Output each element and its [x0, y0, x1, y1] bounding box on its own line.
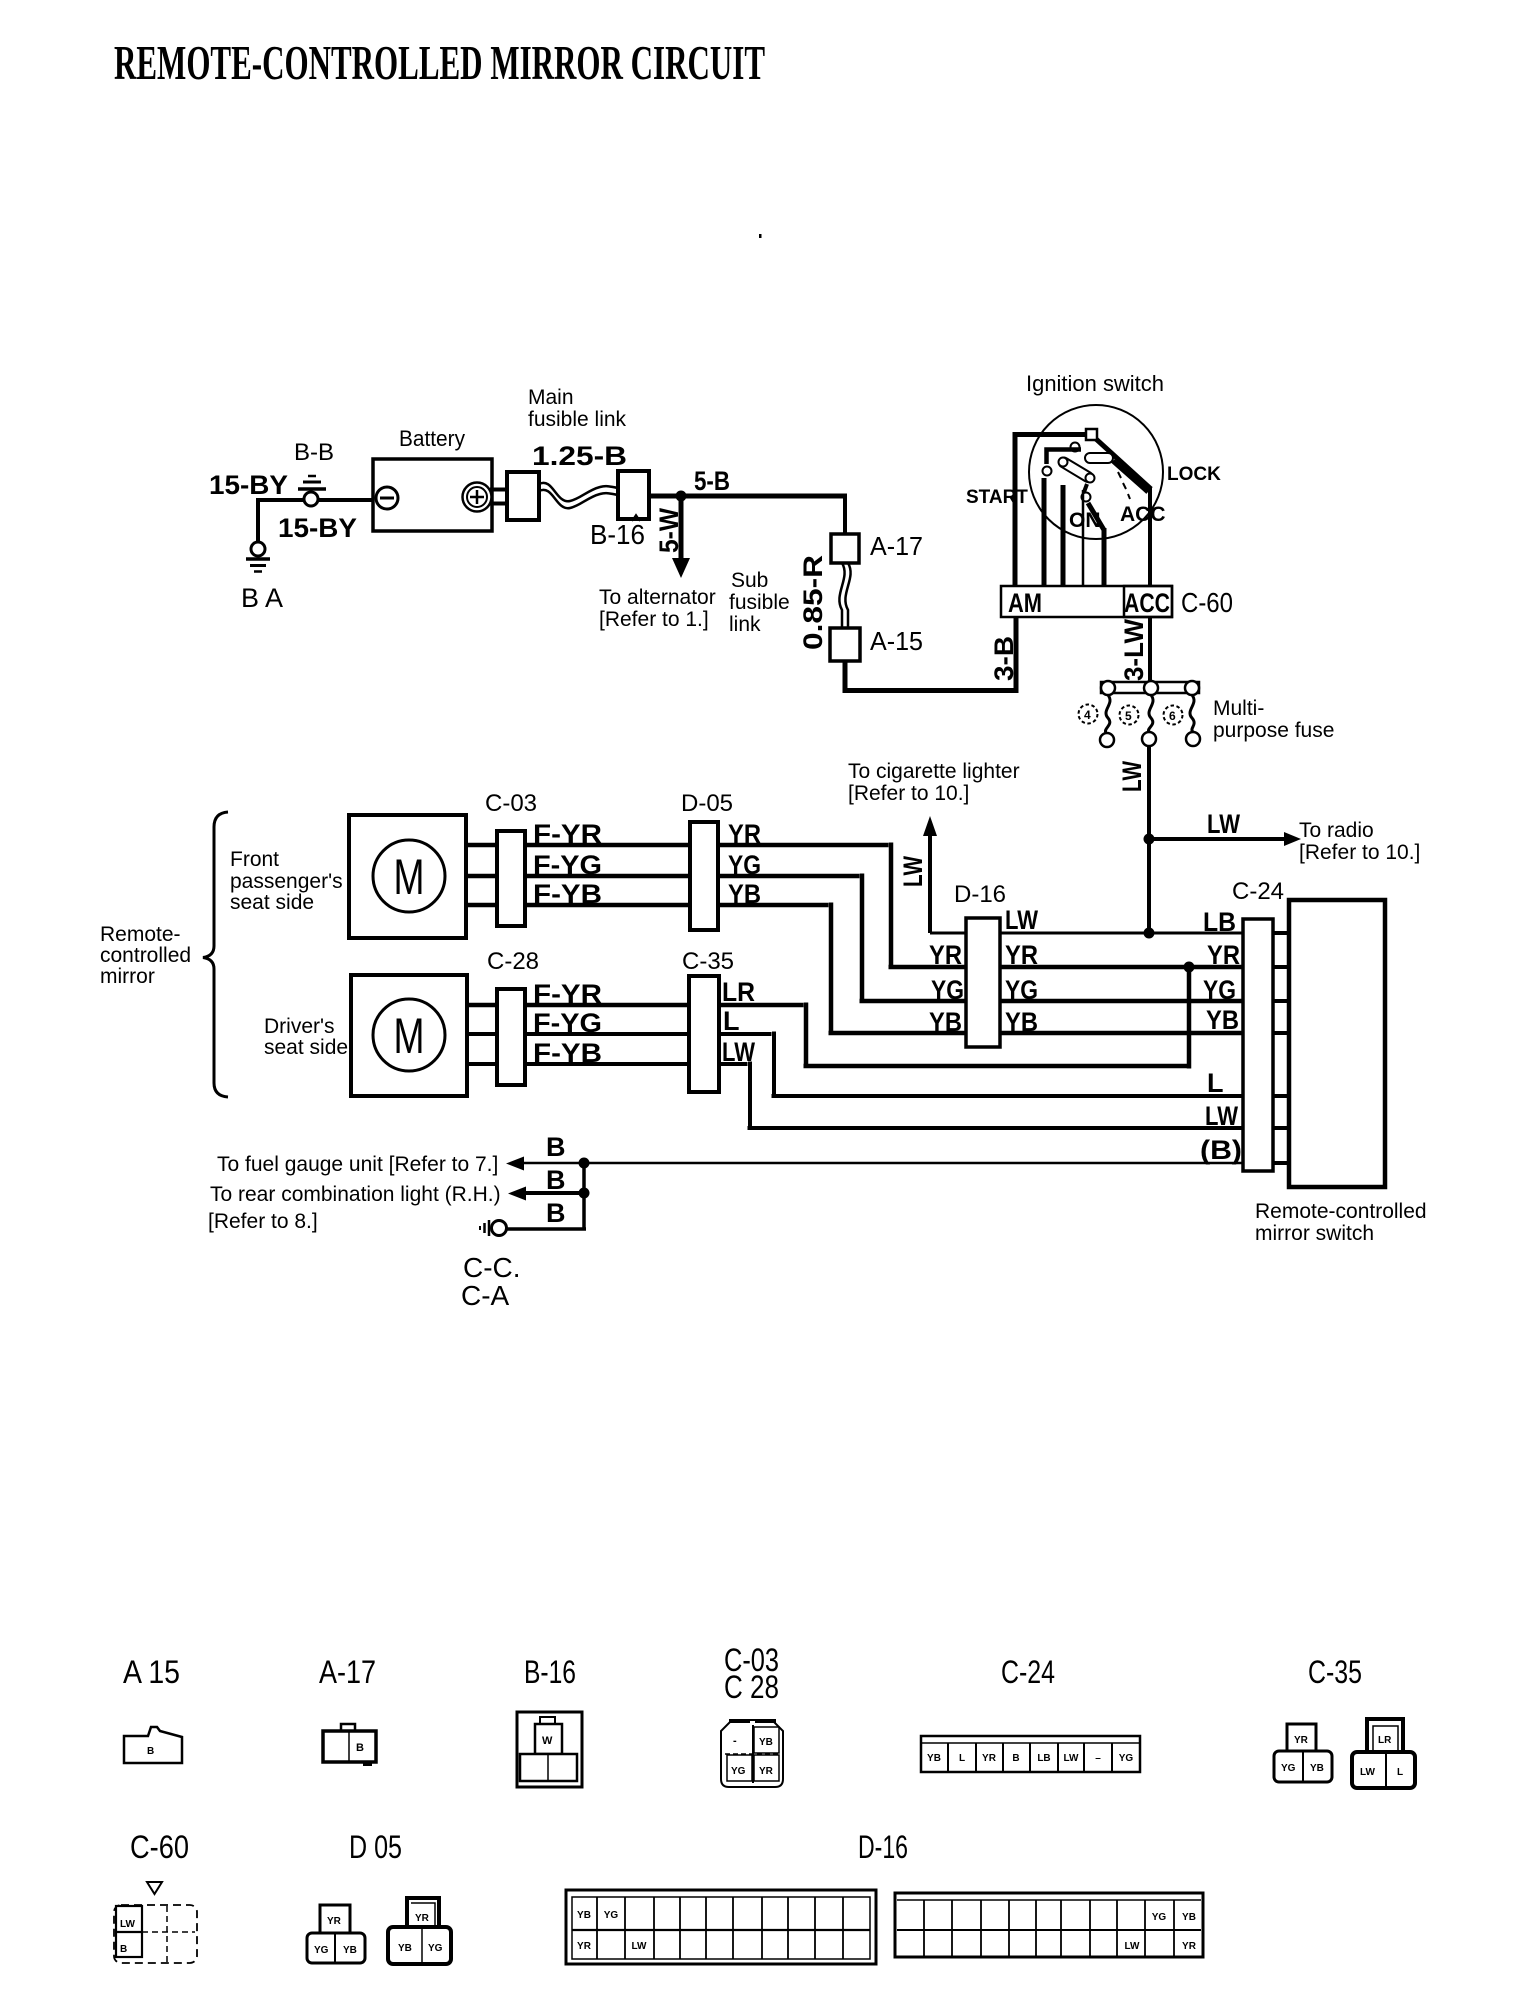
- wire (B) row: [522, 1162, 1243, 1165]
- svg-text:Remote-controlled: Remote-controlled: [1255, 1200, 1427, 1223]
- svg-text:F-YB: F-YB: [533, 1038, 602, 1068]
- svg-text:YG: YG: [728, 850, 761, 880]
- svg-text:LW: LW: [1064, 1753, 1080, 1764]
- svg-text:mirror: mirror: [100, 965, 155, 988]
- svg-text:YB: YB: [398, 1943, 412, 1954]
- svg-text:1.25-B: 1.25-B: [532, 441, 627, 471]
- svg-text:LW: LW: [1117, 761, 1147, 792]
- wire 5-B: [649, 494, 847, 499]
- svg-text:YR: YR: [415, 1913, 430, 1924]
- svg-text:YB: YB: [1182, 1912, 1196, 1923]
- connector C-35: [689, 976, 719, 1092]
- svg-text:YR: YR: [1182, 1941, 1197, 1952]
- svg-text:LB: LB: [1203, 907, 1236, 937]
- wire LR row to YR junction: [467, 967, 1189, 1069]
- svg-text:C-03: C-03: [485, 790, 537, 817]
- svg-text:[Refer to 1.]: [Refer to 1.]: [599, 608, 709, 631]
- svg-text:C-C.: C-C.: [463, 1252, 521, 1283]
- pin icon B-16: [517, 1712, 582, 1787]
- wire YB row: [466, 903, 1243, 1034]
- wire to alternator arrow: [679, 496, 684, 560]
- svg-text:[Refer to 8.]: [Refer to 8.]: [208, 1210, 318, 1233]
- svg-text:D-16: D-16: [858, 1829, 908, 1865]
- wire ACC to fuse: [1148, 617, 1152, 682]
- wire ground drop: [256, 498, 260, 543]
- node junction radio: [1144, 834, 1155, 845]
- svg-text:YG: YG: [731, 1766, 746, 1777]
- svg-text:B: B: [546, 1198, 566, 1228]
- svg-text:[Refer to 10.]: [Refer to 10.]: [848, 782, 969, 805]
- svg-text:YR: YR: [327, 1916, 342, 1927]
- svg-text:15-BY: 15-BY: [209, 470, 288, 500]
- pin icon C-35 b: [1352, 1719, 1415, 1788]
- svg-text:L: L: [723, 1006, 740, 1036]
- svg-text:A 15: A 15: [123, 1654, 180, 1690]
- multi-purpose fuse: [1079, 681, 1201, 747]
- wire ignition pin 2: [1042, 478, 1047, 586]
- svg-text:YR: YR: [1207, 940, 1240, 970]
- svg-text:B: B: [147, 1746, 154, 1757]
- svg-text:B-16: B-16: [524, 1654, 576, 1690]
- svg-text:fusible link: fusible link: [528, 408, 627, 431]
- svg-text:YG: YG: [1119, 1753, 1134, 1764]
- svg-text:[Refer to 10.]: [Refer to 10.]: [1299, 841, 1420, 864]
- svg-text:LW: LW: [1125, 1941, 1141, 1952]
- wire ignition pin 5: [1102, 528, 1107, 586]
- wire to radio: [1149, 837, 1285, 841]
- svg-text:(B): (B): [1200, 1135, 1242, 1165]
- main fusible link left terminal: [507, 472, 539, 520]
- svg-text:B-B: B-B: [294, 439, 334, 466]
- svg-text:C-28: C-28: [487, 948, 539, 975]
- brace remote-controlled mirror: [203, 812, 228, 1097]
- svg-text:purpose fuse: purpose fuse: [1213, 719, 1334, 742]
- svg-text:D-16: D-16: [954, 881, 1006, 908]
- svg-text:YB: YB: [1310, 1763, 1324, 1774]
- connector C-60: [1001, 586, 1172, 617]
- svg-text:YB: YB: [728, 879, 761, 909]
- node junction 5-B: [676, 491, 687, 502]
- svg-text:B-16: B-16: [590, 519, 645, 550]
- svg-text:LW: LW: [1205, 1101, 1238, 1131]
- svg-text:AM: AM: [1008, 588, 1042, 618]
- svg-text:Battery: Battery: [399, 426, 465, 451]
- svg-text:YG: YG: [428, 1943, 443, 1954]
- svg-text:YB: YB: [929, 1007, 962, 1037]
- svg-text:C-35: C-35: [682, 948, 734, 975]
- svg-text:B A: B A: [241, 583, 283, 613]
- svg-text:Ignition switch: Ignition switch: [1026, 371, 1164, 396]
- wire LW from fuse: [1147, 746, 1151, 839]
- svg-text:REMOTE-CONTROLLED MIRROR CIRCU: REMOTE-CONTROLLED MIRROR CIRCUIT: [114, 35, 765, 90]
- svg-text:LW: LW: [1360, 1767, 1376, 1778]
- svg-text:LW: LW: [120, 1919, 136, 1930]
- svg-text:To cigarette lighter: To cigarette lighter: [848, 760, 1020, 783]
- svg-text:0.85-R: 0.85-R: [798, 555, 828, 650]
- svg-text:C-60: C-60: [130, 1829, 189, 1865]
- svg-text:D-05: D-05: [681, 790, 733, 817]
- svg-text:link: link: [729, 613, 761, 636]
- svg-text:15-BY: 15-BY: [278, 513, 357, 543]
- node junction LB row: [1144, 928, 1155, 939]
- pin icon C-03 C-28: [721, 1719, 783, 1787]
- pin icon A-17: [323, 1724, 376, 1766]
- svg-text:F-YG: F-YG: [533, 1008, 602, 1038]
- svg-text:YR: YR: [982, 1753, 997, 1764]
- battery: [373, 459, 492, 531]
- pin icon D-16 a: [566, 1890, 876, 1964]
- connector A-17: [831, 534, 859, 563]
- svg-text:YB: YB: [927, 1753, 941, 1764]
- svg-text:YB: YB: [1005, 1007, 1038, 1037]
- svg-text:YG: YG: [1281, 1763, 1296, 1774]
- wire B bus vertical: [506, 1163, 586, 1229]
- svg-text:LR: LR: [1378, 1735, 1392, 1746]
- svg-text:YR: YR: [929, 940, 962, 970]
- svg-text:LOCK: LOCK: [1167, 464, 1221, 485]
- svg-text:C-A: C-A: [461, 1280, 510, 1311]
- connector D-16: [966, 918, 1000, 1047]
- svg-text:B: B: [356, 1742, 364, 1754]
- svg-text:YB: YB: [759, 1737, 773, 1748]
- main fusible link right terminal B-16: [618, 471, 649, 519]
- node B-B body ground: [298, 476, 326, 506]
- svg-text:A-17: A-17: [319, 1654, 376, 1690]
- svg-text:Sub: Sub: [731, 569, 768, 592]
- pin icon D-05 b: [388, 1898, 451, 1964]
- svg-text:-: -: [733, 1735, 737, 1747]
- svg-text:W: W: [542, 1735, 553, 1747]
- pin icon C-60: [114, 1882, 197, 1963]
- wire to rear combination light: [524, 1191, 584, 1195]
- connector C-24: [1243, 919, 1273, 1171]
- svg-text:YG: YG: [604, 1910, 619, 1921]
- svg-text:LW: LW: [898, 856, 928, 887]
- driver mirror motor: [351, 975, 467, 1096]
- wire YG row: [466, 874, 1243, 1002]
- svg-text:4: 4: [1084, 708, 1091, 722]
- svg-text:YG: YG: [1005, 975, 1038, 1005]
- svg-text:LW: LW: [1005, 905, 1038, 935]
- svg-text:C-24: C-24: [1001, 1654, 1055, 1690]
- svg-text:F-YG: F-YG: [533, 850, 602, 880]
- stray dot: [759, 234, 762, 238]
- sub fusible link wavy wire: [839, 563, 844, 628]
- ground B A: [246, 542, 270, 572]
- svg-text:YR: YR: [728, 819, 761, 849]
- front passenger mirror motor: [349, 815, 466, 938]
- svg-text:M: M: [394, 849, 425, 905]
- svg-text:3-B: 3-B: [989, 636, 1019, 681]
- svg-text:LW: LW: [632, 1941, 648, 1952]
- svg-text:A-17: A-17: [870, 531, 923, 561]
- svg-text:C-60: C-60: [1181, 587, 1233, 618]
- svg-text:START: START: [966, 487, 1028, 508]
- svg-text:seat side: seat side: [230, 891, 314, 914]
- node junction YR: [1184, 962, 1195, 973]
- svg-text:5-W: 5-W: [654, 508, 684, 553]
- svg-text:L: L: [1207, 1068, 1224, 1098]
- svg-text:ON: ON: [1069, 509, 1101, 532]
- svg-text:ACC: ACC: [1120, 503, 1166, 526]
- wire battery to main fusible link (double): [490, 490, 509, 504]
- pin icon C-24: [921, 1736, 1140, 1772]
- svg-text:LW: LW: [1207, 809, 1240, 839]
- wire 3-B from A-15 to AM: [843, 617, 1019, 693]
- svg-text:L: L: [1397, 1767, 1403, 1778]
- svg-text:YG: YG: [314, 1945, 329, 1956]
- svg-text:C-35: C-35: [1308, 1654, 1362, 1690]
- svg-text:Multi-: Multi-: [1213, 697, 1264, 720]
- node junction rear light: [579, 1188, 590, 1199]
- wire L row: [467, 1032, 1243, 1097]
- svg-text:mirror switch: mirror switch: [1255, 1222, 1374, 1245]
- ground C-C: [480, 1220, 507, 1236]
- wire ignition pin ON thin: [1082, 490, 1085, 586]
- svg-text:LW: LW: [722, 1037, 755, 1067]
- wire arrow to cigarette lighter: [928, 834, 932, 933]
- wire LW row: [467, 1062, 1243, 1129]
- svg-text:6: 6: [1169, 709, 1176, 723]
- svg-text:LB: LB: [1037, 1753, 1050, 1764]
- pin icon D-16 b: [895, 1893, 1203, 1957]
- svg-text:YR: YR: [1294, 1735, 1309, 1746]
- wire stubs C-24 to switch: [1273, 933, 1289, 1163]
- svg-text:B: B: [546, 1132, 566, 1162]
- connector A-15: [830, 628, 860, 661]
- wire battery negative feed: [257, 498, 373, 502]
- connector C-03: [497, 831, 525, 926]
- svg-text:Main: Main: [528, 386, 574, 409]
- svg-text:To alternator: To alternator: [599, 586, 716, 609]
- ignition switch: [1015, 405, 1163, 539]
- svg-text:B: B: [1012, 1753, 1019, 1764]
- svg-text:YG: YG: [931, 975, 964, 1005]
- svg-text:seat side: seat side: [264, 1036, 348, 1059]
- svg-text:C-24: C-24: [1232, 878, 1284, 905]
- wire LW/LB row: [930, 932, 1243, 935]
- svg-text:B: B: [546, 1165, 566, 1195]
- svg-text:3-LW: 3-LW: [1119, 619, 1149, 681]
- svg-text:5-B: 5-B: [694, 466, 730, 496]
- svg-text:YR: YR: [1005, 940, 1038, 970]
- svg-text:F-YR: F-YR: [533, 979, 602, 1009]
- svg-text:B: B: [120, 1944, 127, 1955]
- wire LW down to LB row: [1147, 839, 1151, 933]
- wire arrow to fuel gauge: [506, 1157, 524, 1171]
- svg-text:F-YR: F-YR: [533, 819, 602, 849]
- node junction fuel: [579, 1158, 590, 1169]
- connector D-05: [690, 822, 718, 930]
- wire ignition pin AM: [1013, 432, 1018, 586]
- svg-text:controlled: controlled: [100, 944, 191, 967]
- svg-text:Front: Front: [230, 848, 279, 871]
- remote-controlled mirror switch box: [1289, 900, 1385, 1187]
- svg-text:M: M: [394, 1008, 425, 1064]
- svg-text:YB: YB: [343, 1945, 357, 1956]
- pin icon D-05 a: [307, 1905, 365, 1963]
- svg-text:To radio: To radio: [1299, 819, 1374, 842]
- svg-text:YB: YB: [577, 1910, 591, 1921]
- svg-text:L: L: [959, 1753, 965, 1764]
- wire ignition pin 3: [1061, 485, 1066, 586]
- svg-text:5: 5: [1125, 709, 1132, 723]
- svg-text:C 28: C 28: [724, 1669, 779, 1705]
- pin icon A-15: [124, 1727, 182, 1763]
- pin icon C-35 a: [1274, 1724, 1332, 1782]
- svg-text:ACC: ACC: [1124, 588, 1170, 618]
- svg-text:passenger's: passenger's: [230, 870, 343, 893]
- svg-text:Remote-: Remote-: [100, 923, 181, 946]
- svg-text:YR: YR: [577, 1941, 592, 1952]
- svg-text:YG: YG: [1203, 975, 1236, 1005]
- svg-text:Driver's: Driver's: [264, 1015, 335, 1038]
- main fusible link wavy wire: [539, 483, 618, 501]
- svg-text:fusible: fusible: [729, 591, 790, 614]
- svg-text:To rear combination light (R.H: To rear combination light (R.H.): [210, 1183, 501, 1206]
- svg-text:LR: LR: [722, 977, 755, 1007]
- svg-text:–: –: [1095, 1753, 1101, 1764]
- svg-text:YB: YB: [1206, 1005, 1239, 1035]
- svg-text:To fuel gauge unit [Refer to 7: To fuel gauge unit [Refer to 7.]: [217, 1153, 498, 1176]
- svg-text:A-15: A-15: [870, 626, 923, 656]
- wire ignition pin ACC: [1148, 487, 1152, 586]
- connector C-28: [497, 989, 525, 1085]
- svg-text:D 05: D 05: [349, 1829, 402, 1865]
- svg-text:YR: YR: [759, 1766, 774, 1777]
- svg-text:F-YB: F-YB: [533, 879, 602, 909]
- sub fusible link wire down: [843, 494, 847, 534]
- svg-text:YG: YG: [1152, 1912, 1167, 1923]
- wire YR row: [466, 843, 1243, 968]
